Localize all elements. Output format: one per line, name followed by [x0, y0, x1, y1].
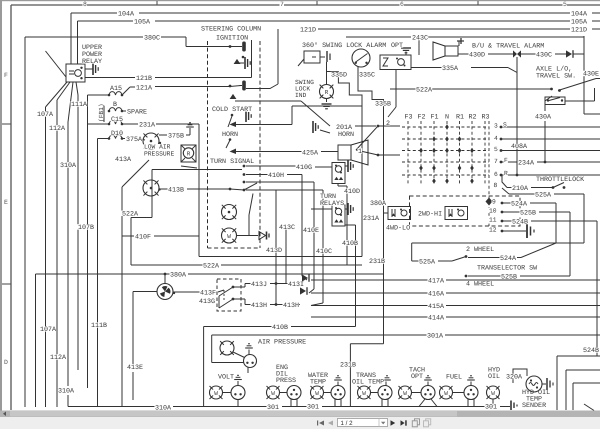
wire hyd sender top — [513, 369, 527, 383]
turn signal wiper — [244, 183, 257, 190]
svg-text:107B: 107B — [78, 224, 94, 232]
svg-text:112A: 112A — [50, 354, 67, 362]
horizontal scrollbar track — [0, 411, 600, 418]
wire 231A vertical — [198, 124, 200, 257]
svg-text:R: R — [187, 150, 191, 157]
svg-text:360° SWING LOCK ALARM: 360° SWING LOCK ALARM — [302, 42, 386, 50]
zone tick top 2 — [316, 1, 318, 5]
turn relay 1 — [332, 163, 345, 184]
svg-text:231A: 231A — [139, 122, 156, 130]
lamp water W — [311, 386, 324, 399]
switch 413G dashed box — [217, 279, 241, 311]
svg-text:D: D — [4, 359, 8, 366]
svg-text:430C: 430C — [536, 52, 552, 60]
svg-text:4: 4 — [494, 135, 498, 142]
wire 430D — [458, 53, 469, 55]
wire 335A — [411, 67, 442, 69]
ground tach — [427, 382, 429, 386]
wire trans legs — [381, 399, 383, 407]
wire 524B riser — [596, 221, 598, 356]
ground trans — [385, 382, 387, 386]
wire 415A join — [311, 303, 323, 306]
lamp 413B — [143, 180, 159, 196]
svg-text:5: 5 — [563, 1, 567, 8]
axle switch box — [545, 97, 565, 105]
wire 430A riser — [544, 121, 546, 162]
wire W lamp to connector — [237, 235, 259, 237]
console junction 2 — [377, 125, 380, 128]
wire 413J — [234, 286, 245, 288]
turn signal contact 1 — [243, 165, 246, 168]
cap symbol swing lock — [320, 56, 325, 58]
label 121A — [155, 86, 230, 88]
svg-text:W: W — [491, 390, 495, 397]
wire eng pair — [280, 392, 288, 394]
wire relay feed from 104A — [70, 13, 72, 64]
gauge volt — [231, 386, 245, 400]
svg-text:430D: 430D — [469, 52, 485, 60]
svg-text:10: 10 — [489, 208, 497, 215]
turn signal contact 3 — [243, 181, 246, 184]
wire hyd lamp legs — [492, 399, 494, 407]
wire 525B riser — [569, 212, 571, 276]
lamp hyd W — [487, 386, 500, 399]
wire 201A diagonal — [301, 101, 330, 126]
svg-text:IGNITION: IGNITION — [216, 35, 248, 43]
transelector contact 2wheel — [465, 255, 468, 258]
wire 524B — [503, 220, 512, 222]
gauge trans oil temp — [378, 386, 392, 400]
svg-text:7: 7 — [280, 1, 284, 8]
svg-text:8: 8 — [494, 182, 498, 189]
svg-text:413H: 413H — [283, 302, 299, 310]
steering column dashed box — [207, 41, 209, 248]
svg-text:414A: 414A — [428, 315, 445, 323]
wire 417A — [311, 279, 428, 281]
svg-text:310A: 310A — [58, 388, 75, 396]
junction 413H — [275, 303, 278, 306]
svg-text:522A: 522A — [122, 210, 139, 218]
svg-text:HORN: HORN — [222, 131, 238, 139]
wire 380A long — [36, 273, 171, 275]
wire 522A horizontal upper — [152, 169, 242, 171]
toolbar last page button — [401, 420, 405, 425]
svg-text:231B: 231B — [369, 258, 385, 266]
svg-text:525A: 525A — [419, 259, 436, 267]
lamp 413F fan — [157, 284, 173, 300]
svg-text:335A: 335A — [442, 65, 459, 73]
svg-text:STEERING COLUMN: STEERING COLUMN — [201, 26, 261, 34]
svg-text:104A: 104A — [571, 11, 588, 19]
svg-text:FUEL: FUEL — [446, 374, 462, 382]
ground fuel — [470, 382, 472, 386]
wire 380C feeder vertical — [24, 37, 26, 407]
pin 6 — [500, 174, 503, 177]
pin 7 — [500, 161, 503, 164]
svg-text:375A: 375A — [126, 136, 143, 144]
zone tick top 1 — [156, 1, 158, 5]
scrollbar left arrow — [0, 411, 9, 418]
svg-text:524B: 524B — [583, 347, 599, 355]
wire pin4 — [502, 138, 600, 140]
viewer top margin — [0, 0, 600, 1]
svg-text:301: 301 — [267, 404, 279, 412]
svg-text:TRAVEL SW.: TRAVEL SW. — [536, 73, 576, 81]
swing lock ind box — [304, 51, 320, 63]
wire 525A down — [411, 243, 413, 261]
turn signal contact 2 — [243, 173, 246, 176]
svg-text:105A: 105A — [134, 19, 151, 27]
svg-text:210A: 210A — [512, 185, 529, 193]
junction dot 380C — [229, 45, 232, 48]
pin 3 — [500, 126, 503, 129]
junction 413F feed — [164, 273, 167, 276]
svg-text:121D: 121D — [300, 27, 316, 35]
svg-text:N: N — [445, 114, 449, 122]
wire 410 fourth — [246, 189, 323, 191]
svg-text:413E: 413E — [127, 364, 143, 372]
junction dot 413B — [229, 188, 232, 191]
svg-text:B/U & TRAVEL ALARM: B/U & TRAVEL ALARM — [472, 43, 544, 51]
wire into relay2 — [311, 208, 332, 210]
svg-text:6: 6 — [494, 171, 498, 178]
junction 413J — [275, 282, 278, 285]
wire 231 riser — [361, 100, 363, 257]
svg-text:112A: 112A — [49, 125, 66, 133]
wire 410G — [246, 165, 296, 167]
svg-text:430E: 430E — [583, 71, 599, 79]
wire 105A — [78, 20, 134, 22]
console grid diamonds — [445, 124, 449, 129]
wire 107B vertical — [77, 95, 79, 370]
svg-text:AIR PRESSURE: AIR PRESSURE — [258, 339, 306, 347]
svg-text:4WD-LO: 4WD-LO — [386, 225, 410, 233]
svg-text:231B: 231B — [340, 362, 356, 370]
wire 301A — [212, 334, 427, 336]
svg-text:335B: 335B — [375, 101, 391, 109]
svg-text:OIL: OIL — [488, 373, 500, 381]
svg-text:310A: 310A — [60, 162, 77, 170]
svg-text:410E: 410E — [303, 227, 319, 235]
wire 410H — [246, 174, 268, 176]
svg-text:8: 8 — [83, 1, 87, 8]
hyd oil temp sender — [526, 376, 542, 392]
wire 231A horizontal — [199, 256, 362, 258]
wire 107A vertical — [45, 107, 47, 407]
svg-text:9: 9 — [492, 199, 496, 206]
wire 335B riser — [395, 70, 397, 108]
gauge air pressure — [244, 355, 257, 368]
lamp ignition W — [222, 228, 237, 243]
wire 111 vertical — [87, 95, 89, 388]
wire 522A long — [131, 264, 203, 266]
wire 525A top run — [412, 242, 584, 244]
svg-text:524B: 524B — [512, 219, 528, 227]
ground pin12 — [526, 224, 528, 238]
wire 416A — [311, 292, 428, 294]
svg-text:380C: 380C — [144, 35, 160, 43]
svg-text:380A: 380A — [170, 272, 187, 280]
wire 410B long — [204, 326, 272, 328]
wire water pair — [324, 392, 332, 394]
svg-text:RELAYS: RELAYS — [320, 200, 344, 208]
fuse A15 — [109, 92, 122, 95]
svg-text:F3: F3 — [405, 114, 413, 122]
svg-text:121A: 121A — [136, 85, 153, 93]
ground at upper power relay — [85, 68, 93, 70]
svg-text:4 WHEEL: 4 WHEEL — [466, 281, 494, 289]
wire ignition to 121D riser — [246, 84, 278, 89]
ground hyd sender — [542, 383, 546, 385]
wire 522A jog — [131, 217, 152, 219]
svg-text:413J: 413J — [251, 281, 267, 289]
wire 417A riser — [301, 175, 303, 277]
svg-text:OPT: OPT — [411, 373, 423, 381]
svg-text:R: R — [504, 170, 508, 177]
horn speaker — [338, 145, 351, 160]
svg-text:413I: 413I — [288, 281, 304, 289]
wire cold start — [236, 124, 292, 126]
svg-text:OPT: OPT — [391, 42, 403, 50]
svg-text:PRESS: PRESS — [276, 377, 296, 385]
wire relay1 bottom — [337, 184, 339, 187]
gauge tach — [421, 386, 435, 400]
viewer left margin — [0, 0, 2, 411]
wire 231A — [88, 123, 110, 125]
svg-text:THROTTLELOCK: THROTTLELOCK — [536, 176, 584, 184]
travel switch arm — [558, 79, 596, 91]
lamp air pressure W — [220, 341, 234, 355]
gauge water temp — [331, 386, 345, 400]
svg-text:522A: 522A — [416, 87, 433, 95]
zone tick left 2 — [2, 283, 11, 285]
wire 121B — [85, 77, 135, 79]
fuse B spare — [109, 108, 122, 111]
ground 301 bus end — [510, 401, 512, 411]
wire 410B riser — [355, 225, 357, 327]
wire 525A to switch — [412, 260, 419, 262]
lamp fuel W — [440, 386, 453, 399]
wire right edge stub — [596, 321, 598, 356]
svg-text:243C: 243C — [412, 35, 428, 43]
wire cold start riser — [291, 106, 293, 125]
svg-text:2 WHEEL: 2 WHEEL — [466, 246, 494, 254]
lamp volt W — [210, 386, 223, 399]
wire 104A — [71, 12, 117, 14]
svg-text:IND: IND — [295, 92, 307, 99]
ground below R lamp — [326, 99, 328, 103]
svg-text:410H: 410H — [268, 172, 284, 180]
wire 121D — [318, 28, 570, 30]
transelector contact 4wheel — [465, 275, 468, 278]
wire relay leg to 68 — [68, 82, 73, 122]
svg-text:W: W — [403, 390, 407, 397]
svg-text:11: 11 — [489, 217, 497, 224]
svg-text:121D: 121D — [571, 27, 587, 35]
lamp ignition upper — [222, 205, 237, 220]
wire 301 bus — [68, 406, 155, 408]
wire 375A — [98, 138, 110, 140]
wire 410F horizontal — [122, 235, 134, 237]
solenoid 4WD-LO — [445, 207, 468, 220]
svg-text:LOW AIR: LOW AIR — [144, 144, 171, 151]
svg-text:SENDER: SENDER — [522, 402, 546, 410]
wire air pressure branch — [211, 335, 213, 363]
wire 380A riser — [383, 119, 385, 344]
svg-text:335D: 335D — [331, 72, 347, 80]
wire 413A vertical — [121, 187, 123, 407]
svg-text:F1: F1 — [431, 114, 439, 122]
wire pin3 S — [502, 126, 600, 128]
svg-text:408A: 408A — [511, 143, 528, 151]
wire volt pair — [223, 392, 232, 394]
wire 335C staircase — [358, 67, 384, 119]
pin 12 — [501, 230, 504, 233]
ignition connector pin 1 — [242, 42, 246, 52]
wire 231B jog — [350, 343, 383, 345]
wire right edge 1 — [557, 355, 600, 357]
switch 413G arms — [219, 287, 233, 296]
toolbar page input box — [338, 419, 388, 427]
cold start switch — [231, 114, 234, 117]
fuse D10 — [109, 135, 122, 138]
svg-text:7: 7 — [494, 158, 498, 165]
svg-text:105A: 105A — [571, 19, 588, 27]
fuse block label FB1 — [103, 106, 105, 122]
wire 413F left — [133, 291, 157, 293]
svg-text:111B: 111B — [91, 322, 107, 330]
svg-text:W: W — [362, 390, 366, 397]
wire solenoid feed — [384, 212, 389, 214]
ground volt — [237, 381, 239, 386]
transelector arm — [452, 257, 466, 262]
svg-text:413G: 413G — [199, 298, 215, 306]
diode at 417A — [302, 276, 307, 280]
svg-text:522A: 522A — [203, 263, 220, 271]
wire diagonal into relay — [46, 51, 67, 77]
svg-text:2: 2 — [386, 120, 390, 128]
svg-text:D10: D10 — [111, 130, 123, 138]
svg-text:12: 12 — [489, 227, 497, 234]
svg-text:121B: 121B — [136, 75, 152, 83]
ground above opt relay — [405, 52, 407, 56]
swing lock alarm gauge — [352, 49, 370, 67]
svg-text:410C: 410C — [316, 248, 332, 256]
svg-text:W: W — [271, 390, 275, 397]
svg-text:R1: R1 — [456, 114, 464, 122]
wire 413H — [234, 298, 245, 300]
svg-text:111A: 111A — [71, 101, 88, 109]
wire 416A riser — [313, 182, 315, 289]
horn switch — [229, 138, 232, 141]
zone tick left 1 — [2, 123, 11, 125]
svg-text:525B: 525B — [501, 274, 517, 282]
svg-text:413D: 413D — [266, 247, 282, 255]
sheet border frame — [11, 4, 600, 6]
svg-text:410G: 410G — [296, 164, 312, 172]
svg-text:410B: 410B — [272, 324, 288, 332]
svg-text:A15: A15 — [110, 85, 122, 93]
ground water temp — [337, 382, 339, 386]
wire relay2 to 410B riser — [345, 224, 356, 226]
wire 413B — [160, 188, 169, 190]
svg-text:104A: 104A — [118, 11, 135, 19]
ground at horn — [312, 121, 314, 133]
svg-text:413H: 413H — [251, 302, 267, 310]
svg-text:413A: 413A — [115, 156, 132, 164]
toolbar next page button — [391, 420, 396, 425]
wire 413E vertical — [132, 292, 134, 365]
svg-text:301: 301 — [307, 404, 319, 412]
pin 10 — [501, 211, 504, 214]
ground air pressure — [248, 350, 250, 356]
console grid right dashed edge — [488, 121, 490, 226]
fuse C15 — [109, 121, 122, 124]
wire right edge 3 — [573, 382, 600, 384]
ground at turn relay 2 — [345, 208, 348, 210]
svg-text:234A: 234A — [518, 160, 535, 168]
wire 524A lower — [468, 257, 500, 259]
svg-text:320A: 320A — [506, 374, 523, 382]
svg-text:417A: 417A — [428, 278, 445, 286]
svg-text:F2: F2 — [418, 114, 426, 122]
turn signal contact 4 — [243, 189, 246, 192]
junction 430A-234A — [544, 161, 547, 164]
svg-text:301A: 301A — [427, 333, 444, 341]
svg-text:TEMP: TEMP — [310, 379, 326, 387]
svg-text:B: B — [113, 101, 117, 109]
viewer toolbar — [0, 417, 600, 429]
svg-text:C15: C15 — [111, 116, 123, 124]
cap symbol above R flasher — [186, 126, 194, 128]
wire 375B — [159, 134, 167, 136]
wire right edge diagonal — [584, 404, 594, 411]
svg-text:524A: 524A — [500, 255, 517, 263]
svg-text:107A: 107A — [40, 326, 57, 334]
console grid dashed rows — [402, 126, 489, 128]
svg-text:375B: 375B — [168, 133, 184, 141]
gauge eng oil press — [287, 386, 301, 400]
svg-text:231A: 231A — [363, 215, 380, 223]
turn relay 2 — [332, 205, 345, 226]
svg-text:416A: 416A — [428, 291, 445, 299]
svg-text:410F: 410F — [135, 234, 151, 242]
wire 413A diagonal — [122, 160, 149, 187]
lamp swing lock R — [320, 85, 334, 99]
pin 9 — [501, 202, 504, 205]
svg-text:1 / 2: 1 / 2 — [341, 420, 354, 427]
wire 380A left vertical — [35, 274, 37, 407]
wire 525B lower — [468, 275, 501, 277]
svg-text:524A: 524A — [511, 201, 528, 209]
ignition connector pin 2 — [242, 81, 246, 91]
wire 410B down — [203, 327, 205, 407]
wire from axle switch — [565, 100, 595, 102]
wire 410 third — [246, 181, 314, 183]
wire 310A vertical — [67, 122, 69, 386]
svg-text:W: W — [227, 233, 231, 240]
console grid dashed columns — [407, 121, 409, 184]
wire 210A — [507, 187, 512, 189]
wire 201A to console — [355, 125, 376, 127]
wire 335D staircase — [326, 62, 328, 85]
svg-text:2WD-HI: 2WD-HI — [418, 211, 442, 219]
toolbar first page button — [317, 421, 318, 426]
svg-text:415A: 415A — [428, 303, 445, 311]
wire 415A — [311, 305, 428, 307]
connector at backup alarm — [458, 41, 460, 46]
ignition dot below pin1 — [242, 56, 245, 59]
